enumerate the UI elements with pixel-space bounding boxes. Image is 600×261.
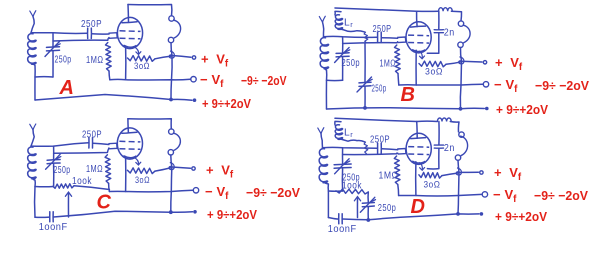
wire 2n stem (B) [438,11,440,29]
terminal +Vf (B) [483,61,486,64]
svg-text:3oΩ: 3oΩ [134,61,150,71]
wire rail after 100nF (D) [343,214,479,220]
svg-text:250p: 250p [372,84,387,95]
resistor R1 1M (B) [395,45,401,74]
wire coil bottom to rail (D) [324,182,329,218]
triode V1 (B) [406,22,431,53]
svg-text:1ook: 1ook [72,176,92,187]
choke coil anode (D) [437,118,451,122]
potentiometer 100k (D) [336,189,368,194]
svg-text:1MΩ: 1MΩ [379,171,399,182]
wire varcap stem (D) [342,148,344,164]
capacitor C2 250P grid (D) [377,143,379,153]
terminal -Vf (B) [483,82,488,87]
cathode arrow (D) [419,162,422,170]
resistor R2 30ohm (C) [128,168,156,174]
resistor R1 1M (C) [105,155,111,184]
wire varcap stem (A) [52,33,54,47]
wire coil-bottom to varcap-bottom (A) [35,76,53,78]
wire to +Vf terminal (B) [462,60,483,63]
coupling loop arc (A) [173,20,181,38]
svg-text:−9÷ −2oV: −9÷ −2oV [534,188,588,203]
terminal jack upper (B) [458,21,463,26]
wire cap to grid (D) [382,149,398,150]
svg-text:250p: 250p [54,165,71,176]
wire +9V bottom rail (B) [327,108,485,109]
terminal jack lower (B) [458,42,463,47]
resistor R2 30ohm (B) [419,61,446,67]
svg-text:250p: 250p [378,203,397,214]
junction curl (B) [459,57,464,64]
capacitor C4 100nF (D) [338,214,340,224]
wire Lr bottom squiggle (D) [339,139,365,142]
junction rail/right column (A) [169,98,173,102]
svg-text:2n: 2n [444,143,455,154]
wiper arrow 100k (C) [67,193,69,217]
wire varcap stem (B) [342,37,344,53]
coupling loop arc (D) [460,136,468,156]
svg-text:−9÷ −2oV: −9÷ −2oV [535,78,589,93]
wire top rail left end / Lr hook (B) [335,11,341,15]
capacitor C2 250P grid (A) [87,28,89,38]
cathode arrow (C) [133,157,138,165]
wire grid line (A) [53,38,109,42]
wire right column (B) [460,48,461,109]
terminal -Vf (D) [482,192,487,197]
wire varcap2 stem (B) [364,44,366,83]
svg-text:3oΩ: 3oΩ [425,67,443,77]
capacitor C4 100nF (C) [49,212,51,222]
junction rail/right column (B) [459,107,463,111]
cathode lead (D) [415,162,417,196]
wire grid line (B) [343,42,398,44]
triode V1 (A) [117,17,142,48]
resistor R2 30ohm (A) [128,56,156,62]
wire to +Vf terminal (D) [459,171,478,173]
terminal jack upper (C) [169,129,174,134]
wire tank top (C) [31,143,89,147]
svg-text:1MΩ: 1MΩ [86,55,104,66]
antenna Y (B) [319,16,325,22]
svg-text:3oΩ: 3oΩ [135,175,150,185]
svg-text:1oonF: 1oonF [328,224,357,235]
svg-text:2n: 2n [444,28,455,39]
wire tank top (D) [323,146,378,149]
wiper arrow 100k (D) [356,197,358,217]
antenna Y (C) [30,124,36,130]
variable capacitor C1 250p (B) [336,52,349,55]
wire varcap2 stem (D) [367,192,369,202]
variable capacitor C3 250p padder (B) [359,81,371,84]
wire to +Vf terminal (C) [172,167,191,168]
terminal +Vf (A) [192,56,195,59]
anode lead (C) [127,119,129,133]
antenna Y (D) [318,128,324,134]
wire pot to grid-leak bottom (C) [74,186,109,190]
terminal jack lower (C) [168,150,173,155]
wire -Vf line (C) [109,190,192,192]
cathode lead (A) [125,46,127,80]
capacitor C5 2n (B) [434,29,443,31]
svg-text:+ 9÷+2oV: + 9÷+2oV [207,207,257,222]
svg-text:250p: 250p [342,58,361,69]
terminal -Vf (C) [193,188,198,193]
cathode lead (B) [415,50,417,85]
wire right column (D) [458,160,459,214]
wire coil bottom to rail (C) [32,178,35,217]
wire Lr to grid line (D) [364,142,368,154]
svg-text:250P: 250P [82,130,102,141]
resistor R1 1M (D) [394,156,400,185]
junction rail/right column (D) [456,212,460,216]
wire coil-bottom to varcap-bottom (C) [35,186,54,188]
svg-text:1MΩ: 1MΩ [380,59,397,70]
coil L1 tank (A) [28,34,36,65]
svg-text:250P: 250P [373,24,392,35]
wire tank top (A) [31,32,87,35]
wire -Vf line (A) [110,78,191,81]
anode lead (B) [416,11,419,26]
anode lead (D) [416,122,419,139]
choke coil anode (B) [439,8,453,12]
wire rail to right column (D) [450,122,459,132]
capacitor C2 250P grid (B) [377,32,379,42]
terminal -Vf (A) [191,77,196,82]
wire rail to right column (B) [451,11,461,21]
svg-text:1ook: 1ook [342,181,362,192]
capacitor C2 250P grid (C) [88,138,90,148]
wire anode top rail (D) [335,118,437,121]
wire coil-bottom to varcap-bottom (D) [328,190,342,192]
wire varcap stem (C) [53,146,55,159]
terminal +9V (B) [485,107,489,111]
svg-text:3oΩ: 3oΩ [424,180,441,190]
wire coil bottom to rail (B) [325,68,327,109]
wire Lr bottom squiggle (B) [339,29,365,32]
svg-text:+ 9÷+2oV: + 9÷+2oV [495,209,547,224]
wire top rail left end / Lr hook (D) [335,121,341,125]
svg-text:1MΩ: 1MΩ [86,164,103,175]
coil Lr (B) [335,15,342,30]
svg-text:+ 9÷+2oV: + 9÷+2oV [202,96,251,111]
terminal +9V (A) [193,98,197,102]
coil L1 tank (D) [319,149,327,183]
svg-text:B: B [401,84,416,106]
anode lead (A) [127,5,130,23]
svg-text:C: C [97,192,112,214]
wire Lr to grid line (B) [364,32,368,43]
svg-text:D: D [411,196,426,218]
wire anode top rail (B) [335,8,439,11]
junction rail/right column (C) [169,210,173,214]
svg-text:250P: 250P [370,135,390,146]
wire -Vf line (B) [399,83,483,86]
resistor R2 30ohm (D) [419,172,442,178]
wire anode top rail (A) [128,5,172,16]
terminal +9V (C) [193,210,197,214]
wire coil bottom to rail (A) [32,64,35,101]
wire +9V bottom rail (D) [328,218,338,220]
svg-text:1oonF: 1oonF [39,222,68,233]
junction varcap2/rail (B) [363,106,367,110]
variable capacitor C1 250p (A) [47,46,60,49]
variable capacitor C1 250p (C) [47,159,60,162]
wire cap to grid (B) [382,37,398,40]
wire +9V bottom rail (C) [35,216,50,218]
wire cap to grid (A) [92,33,109,35]
svg-text:+ 9÷+2oV: + 9÷+2oV [496,102,548,117]
junction curl (D) [456,168,461,175]
wire grid line (D) [343,153,398,154]
terminal +9V (D) [480,212,484,216]
terminal jack lower (D) [455,155,460,160]
wire cap to grid (C) [93,143,109,144]
svg-text:Lr: Lr [344,18,353,29]
resistor R1 1M (A) [106,43,112,72]
variable capacitor C1 250p (D) [334,163,351,166]
wire 2n stem (D) [438,122,440,145]
cathode arrow (B) [419,51,422,59]
wire grid line (C) [54,148,109,153]
terminal +Vf (D) [480,171,483,174]
wire -Vf line (D) [399,194,482,196]
variable capacitor C3 250p padder (D) [362,202,374,205]
terminal jack lower (A) [168,37,173,42]
junction varcap2/rail (D) [366,218,370,222]
coupling loop arc (C) [173,133,181,150]
junction curl (C) [169,163,174,170]
wire right column (C) [171,155,172,212]
coupling loop arc (B) [463,25,471,43]
capacitor C5 2n (D) [434,144,443,146]
wire +9V bottom rail (A) [35,95,192,101]
wire anode top rail (C) [128,119,171,129]
svg-text:250P: 250P [81,19,102,30]
wire to +Vf terminal (A) [172,56,191,58]
antenna Y (A) [30,11,36,17]
terminal jack upper (D) [459,132,464,137]
svg-text:250p: 250p [55,55,72,66]
wire right column (A) [171,43,172,100]
wire coil-bottom to varcap-bottom (B) [327,79,343,81]
coil L1 tank (B) [320,38,328,69]
svg-text:−9÷ −2oV: −9÷ −2oV [246,185,300,200]
coil L1 tank (C) [28,147,36,179]
terminal +Vf (C) [192,167,195,170]
potentiometer 100k (C) [53,184,74,189]
triode V1 (D) [406,133,431,164]
junction curl (A) [169,51,174,58]
terminal jack upper (A) [169,16,174,21]
coil Lr (D) [335,125,342,140]
svg-text:A: A [59,77,75,99]
svg-text:Lr: Lr [344,128,353,139]
cathode lead (C) [125,157,127,192]
cathode arrow (A) [134,47,139,55]
wire tank top (B) [324,36,378,37]
wire rail after 100nF (C) [54,211,193,217]
triode V1 (C) [117,128,142,159]
svg-text:−9÷ −2oV: −9÷ −2oV [241,73,287,88]
